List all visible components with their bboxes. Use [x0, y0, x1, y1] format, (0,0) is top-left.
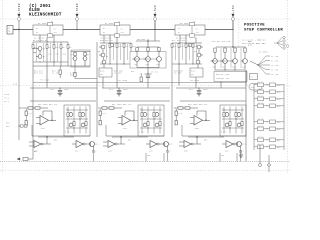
svg-text:R 4K7: R 4K7 — [139, 131, 145, 133]
svg-text:CLK PULSE GEN SH2: CLK PULSE GEN SH2 — [242, 42, 266, 45]
ladder col 2 — [73, 107, 75, 134]
cluster B top drops — [103, 35, 105, 43]
cluster A emitter resistor — [59, 70, 61, 74]
resistor above Q9 — [136, 48, 138, 52]
K2 center element upper — [115, 22, 120, 25]
cluster D lower box — [190, 68, 203, 77]
K1 center element upper — [48, 22, 53, 25]
resistor R18 — [130, 44, 132, 48]
ladder resistor a — [141, 113, 143, 117]
K1 center wire — [49, 26, 51, 34]
fanout branch S5 — [258, 65, 266, 74]
svg-text:1K 1K: 1K 1K — [258, 88, 264, 90]
connector J1 — [7, 26, 13, 35]
ladder resistor d — [159, 122, 161, 126]
op-amp U3 feedback — [196, 111, 198, 116]
left feed wire — [18, 30, 20, 140]
svg-text:C: C — [170, 151, 171, 153]
wire at C11 — [118, 87, 119, 88]
cluster E bottom wire — [215, 69, 245, 71]
ladder resistor a — [223, 113, 225, 117]
svg-text:R61: R61 — [54, 140, 57, 142]
svg-text:POSITIVE: POSITIVE — [244, 24, 265, 28]
left tap resistor a — [21, 125, 24, 127]
svg-text:D1 1N4148: D1 1N4148 — [34, 38, 44, 40]
svg-text:IN: IN — [8, 31, 11, 33]
wire from connector +5V0 — [154, 21, 156, 30]
ladder transistor c — [225, 123, 229, 127]
fanout branch S2 — [258, 61, 266, 66]
cluster B wires — [102, 49, 104, 53]
cluster C base wire — [133, 58, 155, 60]
misc bus feeds — [145, 153, 147, 162]
ladder resistor a — [67, 113, 69, 117]
block 3 output transistor — [237, 142, 242, 147]
wire from connector +15V — [232, 21, 234, 30]
arrow -STEP — [76, 14, 78, 17]
resistor R15 — [109, 44, 111, 48]
svg-text:(C) 2001: (C) 2001 — [29, 4, 51, 9]
divider network row 5 — [254, 121, 284, 123]
svg-text:D: D — [237, 117, 238, 119]
transistor Q11 — [157, 57, 162, 62]
transistor Q3 — [73, 57, 77, 61]
svg-text:VR1: VR1 — [55, 47, 58, 49]
K2 center element lower — [115, 34, 120, 37]
svg-text:C12: C12 — [189, 89, 193, 91]
svg-text:S2 2K0: S2 2K0 — [271, 60, 278, 62]
block 1 input resistors — [28, 107, 33, 109]
bus connector circle A — [259, 164, 262, 167]
svg-text:D: D — [140, 108, 141, 110]
left tap wire — [19, 125, 28, 127]
svg-text:GLEN: GLEN — [29, 9, 40, 13]
svg-text:S3 2K0: S3 2K0 — [271, 65, 278, 67]
off-page connector circle +5V0 — [154, 18, 157, 21]
divider network row 2 — [254, 91, 284, 93]
ladder col 2 — [229, 107, 231, 134]
ladder row 2 — [140, 118, 162, 120]
grid crossing stubs — [46, 86, 48, 89]
mid band long wire — [33, 82, 246, 84]
ground sym bottom right — [240, 150, 242, 155]
fanout hub wire — [250, 61, 258, 65]
resistor VR2 — [192, 44, 194, 48]
ladder transistor a — [143, 113, 147, 117]
feed to connector B — [268, 155, 270, 163]
svg-text:R82: R82 — [277, 140, 280, 142]
inter-block feed wire x97 — [96, 42, 98, 137]
block 3 bottom wire — [182, 135, 246, 137]
svg-text:Q3: Q3 — [71, 54, 73, 56]
svg-text:2K2: 2K2 — [56, 54, 59, 56]
svg-text:MATCHED x3: MATCHED x3 — [137, 38, 149, 41]
cluster A input stub — [33, 52, 36, 54]
ladder transistor c — [69, 123, 73, 127]
svg-text:R18: R18 — [132, 46, 135, 48]
svg-text:C30: C30 — [147, 155, 150, 157]
resistor above Q17 — [224, 48, 226, 52]
svg-text:K3 STEP: K3 STEP — [180, 23, 189, 25]
resistor R5 — [60, 42, 62, 45]
ladder col 4 — [85, 107, 87, 134]
svg-text:S6: S6 — [121, 28, 123, 30]
svg-text:C: C — [96, 151, 97, 153]
svg-text:F1: F1 — [51, 21, 53, 23]
block 1 transistor tail — [93, 146, 95, 151]
svg-text:S1 2K0: S1 2K0 — [271, 56, 278, 58]
block 2 gate link — [120, 137, 122, 144]
ground below C12 — [197, 93, 202, 95]
transistor Q17 — [223, 59, 228, 64]
middle grid line — [0, 85, 290, 87]
svg-text:Q19: Q19 — [243, 66, 246, 68]
left vert to bus — [32, 78, 34, 159]
svg-text:C23: C23 — [179, 113, 182, 115]
ladder col 3 — [79, 107, 81, 134]
block 3 gate 1 — [184, 141, 191, 148]
connector tree symbol — [274, 38, 282, 49]
svg-text:R51 100K R54 47K: R51 100K R54 47K — [38, 104, 58, 106]
svg-text:D3 1N4148: D3 1N4148 — [176, 38, 186, 40]
svg-text:F2: F2 — [118, 21, 120, 23]
block 1 gate 2 — [76, 141, 83, 148]
svg-text:R17: R17 — [125, 46, 128, 48]
svg-text:7406: 7406 — [4, 94, 9, 96]
K3 center element lower — [190, 34, 195, 37]
inter-block feed wire x172 — [171, 64, 173, 137]
svg-text:R 4K7: R 4K7 — [65, 131, 71, 133]
cluster C top wire — [137, 46, 159, 48]
block 1 feed down — [93, 153, 95, 162]
svg-text:D: D — [81, 117, 82, 119]
svg-text:1K 1K: 1K 1K — [258, 118, 264, 120]
cluster E base wire — [211, 60, 234, 62]
block 2 gate 1 — [108, 141, 115, 148]
transistor Q1 — [38, 47, 42, 51]
block 3 input caps — [175, 111, 177, 115]
transistor Q16 — [213, 59, 218, 64]
svg-text:R72: R72 — [277, 92, 280, 94]
svg-text:R53 100K R56 47K: R53 100K R56 47K — [188, 104, 208, 106]
fanout branch S4 — [258, 65, 266, 70]
cluster A supply drops — [39, 35, 41, 42]
wire J1 to rail — [13, 29, 19, 31]
svg-text:C11: C11 — [109, 89, 113, 91]
svg-text:+15V: +15V — [232, 5, 235, 13]
transistor Q8 — [110, 43, 114, 47]
ladder resistor b — [153, 113, 155, 117]
cluster D wires — [198, 49, 200, 53]
block 2 ladder box — [138, 105, 164, 136]
ladder resistor b — [79, 113, 81, 117]
svg-text:R62: R62 — [128, 140, 131, 142]
ladder transistor c — [143, 123, 147, 127]
right border connector — [286, 45, 289, 48]
transistor Q6 — [101, 53, 105, 57]
bottom border dashed — [0, 170, 290, 172]
block 3 transistor tail — [240, 146, 242, 151]
arrow +STEP — [18, 14, 20, 17]
svg-text:SEL: SEL — [248, 41, 252, 43]
svg-text:R30-33 220R: R30-33 220R — [216, 74, 229, 76]
off-page connector circle +STEP — [18, 18, 21, 21]
resistor above Q11 — [158, 48, 160, 52]
sheet right border dashed — [287, 0, 289, 174]
wire from connector +STEP — [18, 21, 20, 30]
bottom small component — [23, 158, 28, 161]
block 2 bottom wire — [106, 135, 164, 137]
svg-text:R22: R22 — [173, 46, 176, 48]
svg-text:STEP CONTROLLER: STEP CONTROLLER — [244, 29, 283, 33]
transistor Q14 — [196, 60, 200, 64]
K3 center wire — [191, 26, 193, 34]
arrow +15V — [232, 14, 234, 17]
ladder resistor c — [229, 122, 231, 126]
svg-text:Q12: Q12 — [194, 51, 197, 53]
ladder transistor b — [237, 113, 241, 117]
ladder col 2 — [147, 107, 149, 134]
svg-text:R1 R3 VR1 R5: R1 R3 VR1 R5 — [33, 40, 48, 42]
svg-text:Q5: Q5 — [98, 51, 100, 53]
lower bus line — [0, 161, 290, 163]
ladder row 3 — [222, 127, 244, 129]
cluster B lower box — [99, 68, 112, 77]
cluster D top wire — [172, 42, 202, 44]
cluster D feeds down — [195, 77, 197, 86]
svg-text:P2: P2 — [251, 77, 254, 79]
ladder row 3 — [140, 127, 162, 129]
fanout branch S3 — [258, 64, 266, 66]
svg-text:D: D — [155, 117, 156, 119]
relay coil K2 — [100, 25, 130, 35]
svg-text:R16: R16 — [118, 46, 121, 48]
svg-text:R74: R74 — [277, 99, 280, 101]
ladder row 1 — [222, 109, 244, 111]
svg-text:Q4: Q4 — [87, 54, 89, 56]
block 2 input caps — [99, 111, 101, 115]
wire at C10 — [59, 87, 60, 88]
off-page connector circle -STEP — [76, 18, 79, 21]
svg-text:1K 1K: 1K 1K — [258, 102, 264, 104]
block1 input stub — [19, 107, 24, 109]
cluster A bottom wire — [33, 65, 90, 67]
cluster E bottom box — [214, 72, 247, 82]
main supply rail wire — [13, 29, 233, 31]
op-amp U2 — [122, 116, 131, 126]
transistor Q5 — [101, 45, 105, 49]
wire at C12 — [198, 87, 199, 88]
stadium connector — [249, 84, 262, 91]
resistor R23 — [178, 44, 180, 48]
svg-text:NET: NET — [191, 74, 194, 76]
svg-text:KLEINSCHMIDT: KLEINSCHMIDT — [29, 14, 62, 18]
svg-text:TP2 0V65: TP2 0V65 — [118, 80, 127, 82]
cluster B top wire — [100, 42, 131, 44]
svg-text:R5: R5 — [62, 47, 64, 49]
sheet left border dashed — [2, 0, 4, 174]
svg-text:Q10: Q10 — [146, 64, 149, 66]
ladder resistor c — [73, 122, 75, 126]
svg-text:C: C — [243, 151, 244, 153]
svg-text:1K0: 1K0 — [63, 54, 66, 56]
svg-text:R22 R23 R24: R22 R23 R24 — [172, 40, 185, 42]
arrow +5V0 — [154, 14, 156, 17]
block 2 input resistors — [102, 107, 107, 109]
feed to connector A — [259, 145, 261, 164]
svg-text:S6: S6 — [196, 28, 198, 30]
svg-text:-STEP: -STEP — [76, 3, 79, 13]
ladder resistor b — [235, 113, 237, 117]
block top rail 1 — [30, 87, 97, 89]
svg-text:Q16: Q16 — [213, 66, 216, 68]
block 3 ladder box — [220, 105, 246, 136]
divider network row 6 — [254, 128, 284, 130]
ladder col 4 — [159, 107, 161, 134]
block 1 input caps — [25, 111, 27, 115]
cluster D fine wires — [175, 44, 177, 60]
ground below C10 — [58, 93, 63, 95]
svg-text:R80: R80 — [277, 129, 280, 131]
resistor above Q10 — [147, 48, 149, 52]
svg-text:C21: C21 — [29, 113, 32, 115]
svg-text:Q21: Q21 — [95, 144, 99, 146]
divider network row 3 — [254, 98, 284, 100]
resistor R1 — [32, 42, 34, 45]
fanout branch S1 — [258, 56, 266, 65]
svg-text:R7: R7 — [69, 47, 71, 49]
svg-text:Q9: Q9 — [135, 64, 137, 66]
svg-text:100n: 100n — [123, 89, 128, 91]
ladder row 2 — [66, 118, 88, 120]
svg-text:K1 STEP: K1 STEP — [38, 23, 47, 25]
wire from connector -STEP — [76, 21, 78, 30]
ladder row 1 — [66, 109, 88, 111]
top grid line — [0, 18, 290, 20]
svg-text:J1: J1 — [8, 28, 11, 30]
relay coil K3 — [175, 25, 205, 35]
cluster D top drops — [179, 35, 181, 43]
svg-text:C3 47u: C3 47u — [151, 72, 158, 74]
svg-text:S6: S6 — [54, 28, 56, 30]
svg-text:C22: C22 — [103, 113, 106, 115]
resistor R10 — [84, 52, 86, 55]
svg-text:K2 STEP: K2 STEP — [105, 23, 114, 25]
svg-text:10K: 10K — [6, 126, 9, 128]
svg-text:U3C: U3C — [225, 151, 229, 153]
right column rail right — [283, 84, 285, 150]
svg-text:TP3 0V65: TP3 0V65 — [190, 80, 199, 82]
block 3 gate link — [196, 137, 198, 144]
ladder transistor d — [155, 123, 159, 127]
svg-text:S5 2K0: S5 2K0 — [271, 74, 278, 76]
block 2 output transistor — [164, 142, 169, 147]
ladder col 1 — [141, 107, 143, 134]
svg-text:115: 115 — [13, 83, 18, 86]
divider network row 4 — [254, 105, 284, 107]
svg-text:R78: R78 — [277, 122, 280, 124]
ladder transistor d — [237, 123, 241, 127]
svg-text:1K 1K: 1K 1K — [258, 95, 264, 97]
transistor Q19 — [243, 59, 248, 64]
resistor R24 — [185, 44, 187, 48]
title block divider dashed — [238, 19, 240, 48]
resistor R20 — [140, 77, 142, 82]
svg-text:1K 1K: 1K 1K — [258, 125, 264, 127]
block 1 bottom wire — [32, 135, 90, 137]
divider network row 7 — [254, 139, 284, 141]
cluster A feed down — [46, 66, 48, 86]
svg-text:C31: C31 — [221, 155, 224, 157]
transistor Q13 — [197, 53, 201, 57]
svg-text:R23: R23 — [180, 46, 183, 48]
svg-text:R76: R76 — [277, 106, 280, 108]
ladder col 3 — [235, 107, 237, 134]
ladder transistor a — [225, 113, 229, 117]
svg-text:Q11: Q11 — [157, 64, 160, 66]
svg-text:C10: C10 — [50, 89, 54, 91]
resistor R3 — [46, 42, 48, 45]
resistor R14 below pair — [74, 73, 76, 77]
svg-text:U1C: U1C — [75, 151, 79, 153]
ground below C11 — [117, 93, 122, 95]
transistor Q2 — [38, 55, 42, 59]
cluster E top wire — [216, 46, 246, 48]
resistor R16 — [116, 44, 118, 48]
svg-text:NET: NET — [100, 74, 103, 76]
svg-text:SRC: SRC — [70, 75, 74, 77]
svg-text:R 4K7: R 4K7 — [221, 131, 227, 133]
cluster C outline — [130, 52, 166, 69]
svg-text:R52 100K R55 47K: R52 100K R55 47K — [112, 104, 132, 106]
block top rail 3 — [176, 87, 246, 89]
K3 center element upper — [190, 22, 195, 25]
transistor Q12 — [197, 45, 201, 49]
block 1 output transistor — [90, 142, 95, 147]
cluster A pair top wires — [71, 51, 90, 53]
svg-text:CURRENT SET: CURRENT SET — [216, 78, 229, 80]
ladder col 3 — [153, 107, 155, 134]
svg-text:R13 2K2: R13 2K2 — [34, 73, 43, 75]
transistor Q9 — [135, 57, 140, 62]
svg-text:100n: 100n — [64, 89, 69, 91]
svg-text:R70: R70 — [6, 123, 9, 125]
svg-text:1K 1K: 1K 1K — [258, 136, 264, 138]
svg-text:S4 2K0: S4 2K0 — [271, 69, 278, 71]
relay coil K1 — [33, 25, 63, 35]
ladder resistor d — [85, 122, 87, 126]
block 2 top wire — [104, 100, 170, 102]
op-amp U1 feedback — [42, 111, 44, 116]
svg-text:Q23: Q23 — [242, 144, 246, 146]
block 1 ladder box — [64, 105, 90, 136]
wire from +15V down — [232, 21, 234, 47]
resistor R9 — [74, 52, 76, 55]
transistor Q4 — [83, 57, 87, 61]
svg-text:R70: R70 — [277, 85, 280, 87]
svg-text:100n: 100n — [203, 89, 208, 91]
resistor R22 — [171, 44, 173, 48]
ladder row 1 — [140, 109, 162, 111]
K2 center wire — [116, 26, 118, 34]
svg-text:2K2: 2K2 — [49, 54, 52, 56]
svg-text:D: D — [66, 108, 67, 110]
transistor Q10 — [146, 57, 151, 62]
svg-text:Q18: Q18 — [233, 66, 236, 68]
svg-text:D: D — [222, 108, 223, 110]
cluster E feed — [220, 82, 222, 86]
wire pair to feed — [75, 78, 97, 80]
